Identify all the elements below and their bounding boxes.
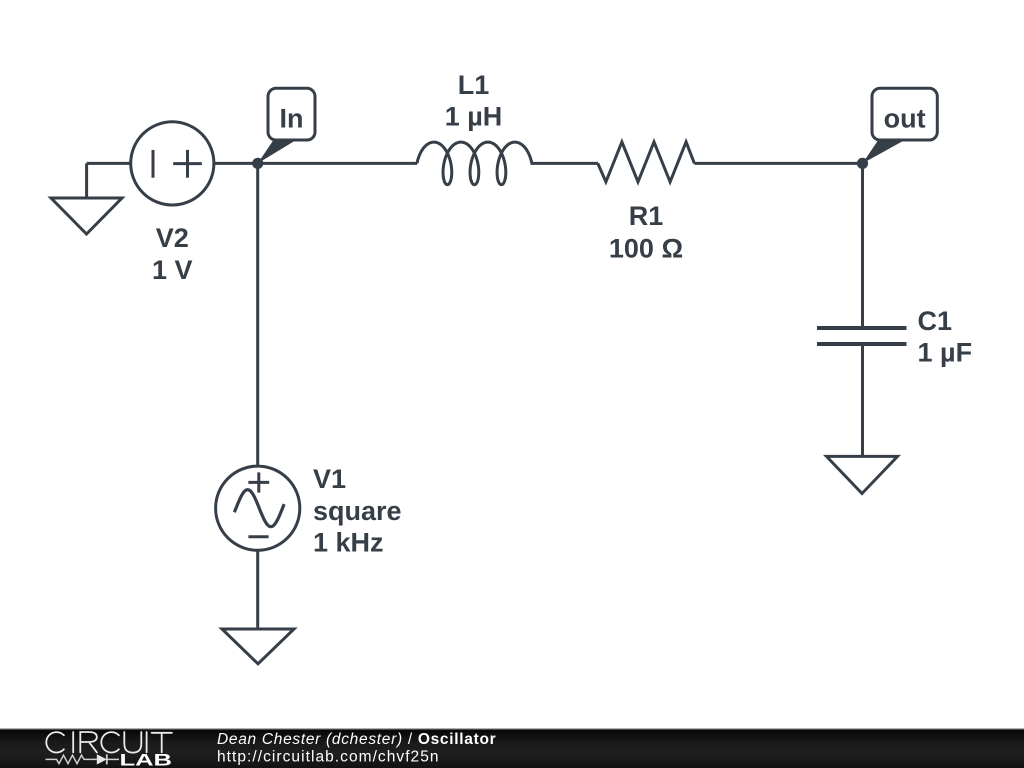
- svg-text:http://circuitlab.com/chvf25n: http://circuitlab.com/chvf25n: [217, 749, 440, 766]
- svg-text:R1: R1: [629, 201, 664, 231]
- svg-text:C1: C1: [918, 306, 953, 336]
- svg-text:L1: L1: [458, 70, 490, 100]
- svg-text:In: In: [280, 104, 304, 134]
- svg-text:1 µH: 1 µH: [445, 101, 503, 131]
- svg-text:LAB: LAB: [120, 751, 173, 768]
- svg-text:out: out: [884, 104, 926, 134]
- svg-text:Dean Chester (dchester) / Osci: Dean Chester (dchester) / Oscillator: [217, 731, 496, 748]
- svg-text:1 V: 1 V: [152, 255, 193, 285]
- svg-text:V1: V1: [313, 464, 346, 494]
- svg-text:square: square: [313, 496, 402, 526]
- svg-text:100 Ω: 100 Ω: [609, 233, 683, 263]
- svg-text:1 µF: 1 µF: [918, 337, 973, 367]
- svg-text:V2: V2: [156, 223, 189, 253]
- svg-text:1 kHz: 1 kHz: [313, 528, 384, 558]
